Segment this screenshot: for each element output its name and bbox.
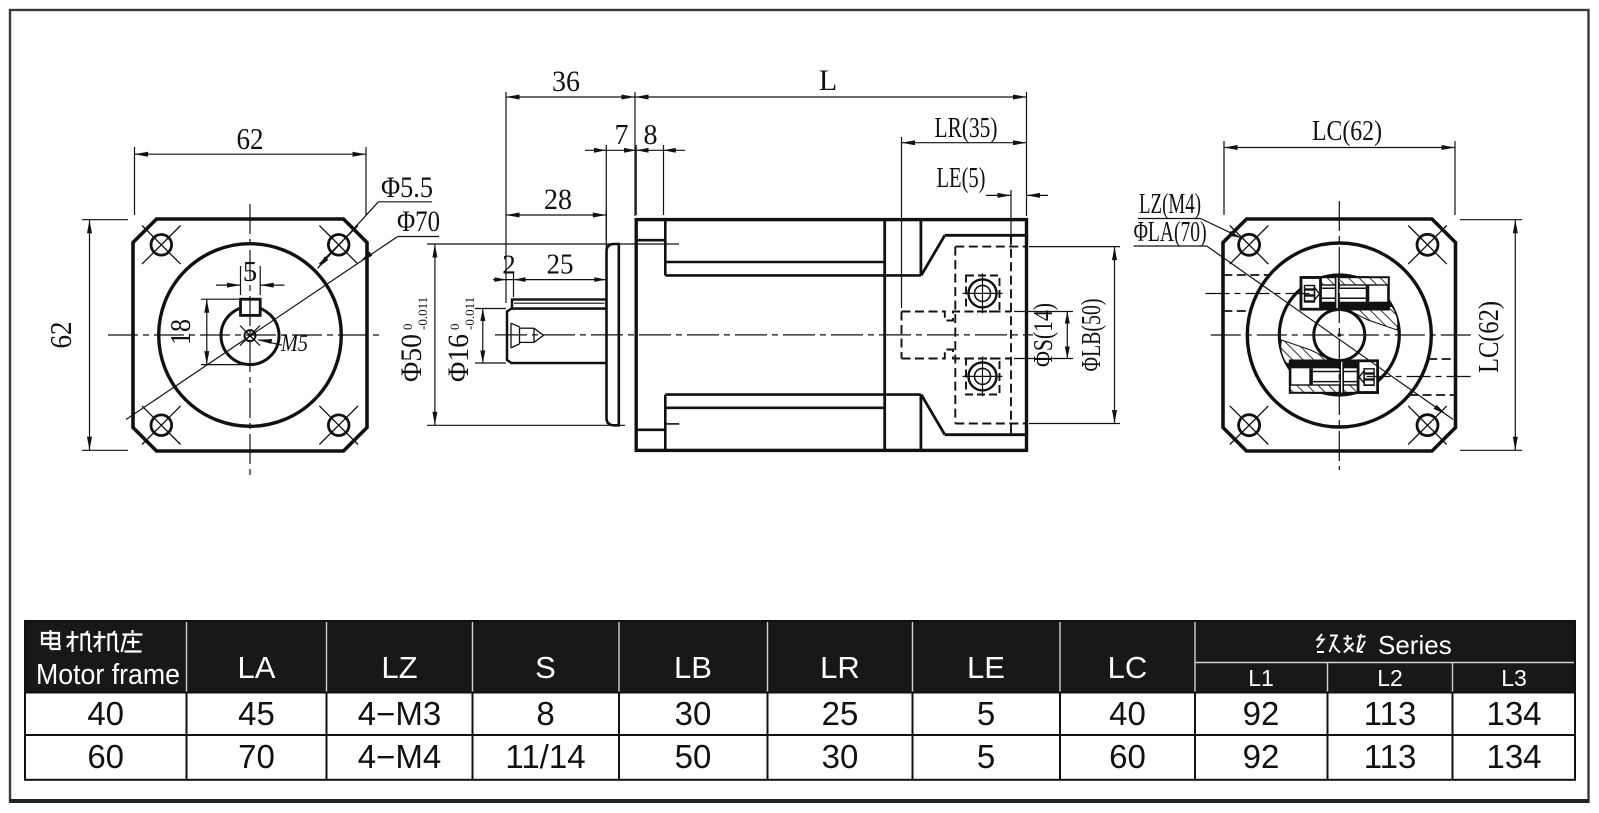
svg-text:30: 30 bbox=[675, 695, 712, 732]
dimension LR(35): extension line bbox=[901, 137, 903, 308]
svg-text:134: 134 bbox=[1486, 695, 1541, 732]
svg-text:M5: M5 bbox=[280, 331, 308, 357]
svg-text:ΦLB(50): ΦLB(50) bbox=[1076, 299, 1106, 372]
dimension 62 left: line and arrows bbox=[87, 220, 92, 451]
dimension phiS(14): extension lines bbox=[1014, 312, 1073, 359]
rear corner hole top-right bbox=[1408, 226, 1447, 265]
dimension 62 top: extension lines bbox=[134, 147, 136, 215]
corner hole top-right bbox=[319, 226, 358, 265]
center tapped hole M5 bbox=[240, 326, 260, 346]
dimension 2 25: line and arrows bbox=[493, 277, 606, 282]
table header texts bbox=[36, 630, 1527, 691]
svg-text:Series: Series bbox=[1378, 630, 1452, 660]
center drill hole symbol at shaft end bbox=[511, 323, 544, 348]
rear flange chamfer diagonals bbox=[921, 235, 945, 434]
svg-text:50: 50 bbox=[675, 738, 712, 775]
dimension 5 keyway: extension lines bbox=[240, 266, 242, 295]
dimension phiLB(50): extension lines bbox=[1029, 247, 1120, 424]
svg-text:134: 134 bbox=[1486, 738, 1541, 775]
rear section joint vertical bbox=[883, 220, 886, 451]
svg-text:62: 62 bbox=[43, 322, 78, 349]
dimension 2 and 25: extension line for key start bbox=[513, 273, 515, 297]
left view horizontal centerline bbox=[108, 334, 382, 336]
dimension 18: extension lines bbox=[201, 298, 241, 300]
output shaft bbox=[507, 309, 607, 364]
svg-text:2: 2 bbox=[502, 250, 516, 280]
svg-text:11/14: 11/14 bbox=[505, 738, 585, 775]
svg-text:5: 5 bbox=[977, 695, 995, 732]
body front step lines bbox=[636, 240, 665, 430]
svg-text:S: S bbox=[535, 650, 556, 685]
svg-text:L2: L2 bbox=[1377, 665, 1403, 691]
label M5 with leader bbox=[258, 331, 308, 357]
upper screw centerline bbox=[1206, 293, 1313, 295]
svg-text:LE(5): LE(5) bbox=[937, 163, 986, 194]
svg-text:LZ(M4): LZ(M4) bbox=[1139, 189, 1201, 220]
rear corner hole top-left bbox=[1230, 226, 1269, 265]
collar shaft bore circle bbox=[1314, 310, 1365, 361]
svg-text:0: 0 bbox=[447, 324, 462, 331]
svg-text:-0.011: -0.011 bbox=[462, 297, 477, 330]
svg-text:113: 113 bbox=[1364, 738, 1417, 775]
shaft key bbox=[512, 300, 607, 309]
hidden motor pilot cup (dashed with keyway notches) bbox=[902, 312, 1012, 359]
svg-text:40: 40 bbox=[1109, 695, 1146, 732]
hidden screw hole edges lower-right (dashed) bbox=[1409, 359, 1455, 395]
lower screw centerline bbox=[1367, 376, 1474, 378]
svg-text:ΦLA(70): ΦLA(70) bbox=[1134, 217, 1207, 248]
table header column separators (white) bbox=[187, 621, 1576, 693]
rear pilot circle phiLA bbox=[1247, 243, 1431, 427]
svg-text:28: 28 bbox=[544, 183, 572, 216]
svg-text:7: 7 bbox=[615, 120, 629, 151]
svg-text:Φ50: Φ50 bbox=[395, 334, 428, 382]
table data row 1 bbox=[87, 695, 1541, 732]
svg-text:40: 40 bbox=[87, 695, 124, 732]
hidden rear recess rectangle (dashed) bbox=[955, 247, 1025, 424]
svg-text:8: 8 bbox=[644, 120, 658, 151]
table data row 2 bbox=[87, 738, 1541, 775]
right view vertical centerline bbox=[1338, 201, 1340, 470]
dimension 7 and 8: extension lines bbox=[606, 145, 663, 240]
dimension phi16: extension lines bbox=[475, 309, 506, 364]
dimension L: line and arrows bbox=[635, 95, 1027, 100]
clamp screw pocket lower bbox=[1290, 361, 1378, 394]
svg-text:LC(62): LC(62) bbox=[1474, 301, 1505, 373]
svg-text:5: 5 bbox=[977, 738, 995, 775]
svg-text:92: 92 bbox=[1243, 695, 1280, 732]
svg-text:-0.011: -0.011 bbox=[415, 297, 430, 330]
svg-text:25: 25 bbox=[547, 249, 574, 281]
svg-text:62: 62 bbox=[237, 121, 264, 156]
dimension LE(5): line and outside arrows bbox=[986, 193, 1048, 198]
dimension 36 and L: extension lines bbox=[506, 92, 1027, 303]
hidden bolt boss rectangles (dashed) bbox=[966, 276, 1000, 395]
svg-text:113: 113 bbox=[1364, 695, 1417, 732]
svg-text:36: 36 bbox=[552, 65, 580, 98]
label phiLA(70) with underline and long leader bbox=[1134, 217, 1453, 419]
svg-text:60: 60 bbox=[87, 738, 124, 775]
dimension 62 top: line and arrows bbox=[135, 152, 367, 157]
label LZ(M4) with underline and leader bbox=[1138, 189, 1242, 238]
dimension LE(5): extension line bbox=[1010, 190, 1012, 247]
svg-text:Motor frame: Motor frame bbox=[36, 659, 180, 691]
dimension LR(35): line and arrows bbox=[902, 140, 1027, 145]
svg-text:70: 70 bbox=[238, 738, 275, 775]
dimension phi16: line and arrows bbox=[480, 309, 485, 364]
hatched wedge upper band bbox=[1322, 277, 1368, 285]
rear mounting screw lower bbox=[963, 356, 1003, 396]
svg-text:L3: L3 bbox=[1501, 665, 1527, 691]
body front inner vertical bbox=[664, 220, 667, 451]
rear flange outer vertical bbox=[920, 220, 923, 451]
hatched wedge right lens bbox=[1344, 307, 1398, 331]
svg-text:8: 8 bbox=[536, 695, 554, 732]
flange square with chamfered corners bbox=[133, 219, 367, 451]
dimension phi16 with tolerance: text (rotated) bbox=[442, 297, 477, 382]
dimension phi50 with tolerance: text (rotated) bbox=[395, 297, 430, 382]
svg-text:LA: LA bbox=[238, 650, 276, 685]
hatched wedge lower band bbox=[1311, 385, 1357, 393]
svg-text:18: 18 bbox=[165, 319, 197, 345]
svg-text:30: 30 bbox=[822, 738, 859, 775]
shaft circle phi16 bbox=[221, 307, 279, 365]
rear corner hole bottom-right bbox=[1408, 406, 1447, 445]
leader phi70: underline and long diagonal bbox=[126, 237, 439, 420]
svg-text:LR(35): LR(35) bbox=[935, 113, 998, 144]
clamp screw pocket upper bbox=[1301, 276, 1389, 309]
svg-text:25: 25 bbox=[822, 695, 859, 732]
flange pilot plate phi50 bbox=[607, 244, 619, 425]
svg-text:Φ5.5: Φ5.5 bbox=[381, 171, 433, 204]
svg-text:4−M4: 4−M4 bbox=[358, 738, 441, 775]
dimension phiS(14): line and arrows bbox=[1065, 312, 1070, 359]
dimension LC(62) right: extension lines bbox=[1460, 220, 1522, 451]
body recess lines upper/lower (to rear joint) bbox=[665, 262, 921, 408]
right view horizontal centerline bbox=[1211, 334, 1472, 336]
dimension 7 8: line and arrows bbox=[585, 148, 685, 153]
svg-text:Φ70: Φ70 bbox=[397, 205, 440, 238]
svg-text:L: L bbox=[819, 64, 837, 97]
table grid lines bbox=[25, 621, 1575, 780]
svg-text:5: 5 bbox=[243, 256, 258, 288]
dimension 36: line and arrows bbox=[506, 95, 635, 100]
rear recess horizontal lines bbox=[945, 235, 1027, 434]
svg-text:Φ16: Φ16 bbox=[442, 334, 475, 382]
svg-text:0: 0 bbox=[400, 324, 415, 331]
svg-text:LR: LR bbox=[820, 650, 860, 685]
dimension 62 left: extension lines bbox=[82, 219, 128, 221]
corner hole bottom-left bbox=[142, 406, 181, 445]
dimension LC(62) top: line and arrows bbox=[1224, 145, 1455, 150]
hatched wedge left lens bbox=[1281, 340, 1335, 364]
keyway slot bbox=[241, 299, 261, 315]
svg-text:60: 60 bbox=[1109, 738, 1146, 775]
dimension LC(62) right: line and arrows bbox=[1513, 220, 1518, 451]
rear flange square with chamfered corners bbox=[1223, 219, 1456, 451]
clamp collar hub circle bbox=[1279, 275, 1399, 395]
dimension phiLB(50): line and arrows bbox=[1112, 247, 1117, 424]
svg-text:4−M3: 4−M3 bbox=[358, 695, 441, 732]
dimension 5 keyway: line and outside arrows bbox=[216, 283, 285, 288]
dimension phi50: line and arrows bbox=[432, 244, 437, 425]
svg-text:ΦS(14): ΦS(14) bbox=[1028, 303, 1058, 367]
extension line at shaft shoulder for 25/28 bbox=[605, 210, 607, 299]
svg-text:92: 92 bbox=[1243, 738, 1280, 775]
body inner stub lines bbox=[665, 423, 679, 425]
svg-text:45: 45 bbox=[238, 695, 275, 732]
svg-text:LC: LC bbox=[1108, 650, 1148, 685]
hidden recess depth line (dashed) bbox=[1010, 235, 1012, 434]
svg-text:LE: LE bbox=[967, 650, 1005, 685]
leader phi5.5: underline and diagonal through top-right hole bbox=[318, 202, 433, 268]
table header background bbox=[25, 621, 1575, 693]
svg-text:L1: L1 bbox=[1248, 665, 1274, 691]
svg-text:LZ: LZ bbox=[381, 650, 417, 685]
dimension 28: line arrows and text bbox=[506, 213, 606, 218]
svg-text:LC(62): LC(62) bbox=[1312, 116, 1382, 147]
corner hole bottom-right bbox=[319, 406, 358, 445]
hidden screw hole edges upper-left (dashed) bbox=[1223, 275, 1269, 311]
middle view main centerline bbox=[495, 334, 1033, 336]
dimension 18: line and arrows bbox=[204, 299, 209, 364]
left view vertical centerline bbox=[249, 204, 251, 478]
gearbox body outer rectangle bbox=[636, 220, 1026, 451]
rear mounting screw upper bbox=[963, 273, 1003, 313]
dimension phi50: extension lines bbox=[427, 244, 679, 425]
rear corner hole bottom-left bbox=[1230, 406, 1269, 445]
pilot circle phi70 bbox=[159, 244, 342, 427]
dimension LC(62) top: extension lines bbox=[1224, 141, 1455, 215]
corner hole top-left bbox=[142, 226, 181, 265]
collar center mark bbox=[1338, 333, 1342, 337]
svg-text:LB: LB bbox=[674, 650, 712, 685]
